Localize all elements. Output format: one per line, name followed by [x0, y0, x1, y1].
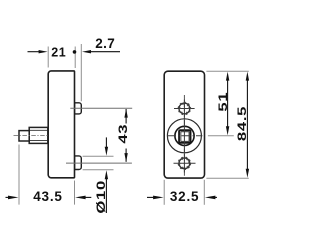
- svg-text:Ø10: Ø10: [95, 180, 108, 214]
- svg-text:2.7: 2.7: [95, 36, 115, 51]
- svg-text:32.5: 32.5: [170, 189, 199, 204]
- svg-text:43.5: 43.5: [33, 189, 62, 204]
- svg-text:43: 43: [117, 124, 130, 144]
- svg-text:51: 51: [217, 92, 230, 112]
- svg-text:21: 21: [51, 45, 66, 59]
- svg-text:84.5: 84.5: [237, 106, 250, 141]
